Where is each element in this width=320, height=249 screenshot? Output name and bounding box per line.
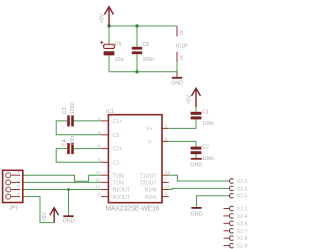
svg-text:R2OUT: R2OUT	[113, 195, 131, 201]
svg-text:100n: 100n	[70, 102, 76, 114]
svg-text:X2-5: X2-5	[237, 194, 248, 200]
svg-text:4: 4	[98, 144, 101, 149]
svg-text:100n: 100n	[70, 134, 76, 146]
svg-text:C1: C1	[202, 109, 209, 115]
svg-text:13: 13	[165, 185, 171, 190]
svg-text:X2-9: X2-9	[237, 244, 248, 249]
svg-text:R2IN: R2IN	[145, 195, 157, 201]
svg-text:X2-4: X2-4	[237, 214, 248, 220]
svg-text:V+: V+	[146, 126, 153, 132]
svg-text:C2: C2	[202, 144, 209, 150]
svg-text:+5V: +5V	[99, 13, 105, 23]
svg-text:4: 4	[17, 192, 20, 197]
svg-text:16: 16	[179, 30, 184, 36]
svg-text:R1IN: R1IN	[145, 188, 157, 194]
svg-text:+5V: +5V	[186, 95, 192, 105]
svg-text:C3: C3	[62, 107, 68, 114]
svg-text:C4: C4	[62, 139, 68, 146]
svg-text:15: 15	[179, 55, 184, 61]
svg-text:10: 10	[95, 177, 101, 182]
svg-text:100n: 100n	[143, 57, 155, 63]
svg-text:3: 3	[17, 184, 20, 189]
svg-text:R1OUT: R1OUT	[113, 188, 131, 194]
svg-text:X2-6: X2-6	[237, 221, 248, 227]
svg-text:GND: GND	[63, 218, 75, 224]
svg-text:X2-2: X2-2	[237, 179, 248, 185]
svg-text:6: 6	[165, 136, 168, 141]
svg-text:T2IN: T2IN	[113, 181, 124, 187]
svg-text:100n: 100n	[202, 156, 214, 162]
svg-text:T2OUT: T2OUT	[139, 181, 157, 187]
svg-text:JP1: JP1	[9, 206, 18, 212]
svg-text:3: 3	[98, 130, 101, 135]
svg-text:C2+: C2+	[113, 147, 123, 153]
svg-text:C1+: C1+	[113, 119, 123, 125]
svg-text:C1-: C1-	[113, 133, 122, 139]
svg-text:GND: GND	[190, 163, 202, 169]
svg-text:IC1: IC1	[106, 109, 114, 115]
svg-text:1: 1	[98, 116, 101, 121]
svg-text:2: 2	[17, 177, 20, 182]
svg-text:+5V: +5V	[42, 212, 48, 222]
svg-text:V-: V-	[148, 139, 153, 145]
svg-text:7: 7	[165, 177, 168, 182]
svg-text:8: 8	[165, 192, 168, 197]
svg-text:X2-3: X2-3	[237, 186, 248, 192]
svg-text:X2-7: X2-7	[237, 229, 248, 235]
svg-text:9: 9	[98, 192, 101, 197]
svg-text:X2-1: X2-1	[237, 207, 248, 213]
svg-text:MAX232SE-WE16: MAX232SE-WE16	[106, 205, 160, 212]
svg-text:X2-8: X2-8	[237, 236, 248, 242]
svg-text:2: 2	[165, 123, 168, 128]
svg-text:T1IN: T1IN	[113, 173, 124, 179]
svg-text:100n: 100n	[202, 121, 214, 127]
svg-text:C6: C6	[115, 42, 122, 48]
svg-text:C2-: C2-	[113, 160, 122, 166]
svg-text:C5: C5	[143, 42, 150, 48]
svg-text:14: 14	[165, 170, 171, 175]
svg-text:12: 12	[95, 185, 101, 190]
svg-text:T1OUT: T1OUT	[139, 173, 157, 179]
svg-text:GND: GND	[191, 211, 203, 217]
svg-text:IC1P: IC1P	[176, 43, 188, 49]
svg-text:5: 5	[98, 157, 101, 162]
svg-text:11: 11	[96, 170, 101, 175]
svg-text:GND: GND	[171, 81, 183, 87]
svg-text:10u: 10u	[115, 57, 124, 63]
